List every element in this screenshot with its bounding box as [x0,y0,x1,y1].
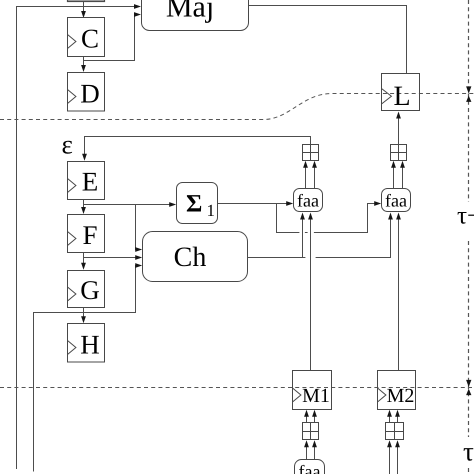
wire F out to G and Ch input 2 [83,253,85,265]
wires faa-L outputs to CSA top-left [305,166,307,188]
node A feedback wire to Maj input 1 [17,7,140,470]
wire Sigma1 out to faa-L side and faa-R side [218,203,290,205]
op unit Maj [142,0,249,31]
svg-text:C: C [81,24,99,54]
CSA adder bottom-left [303,423,319,440]
register L [382,74,420,111]
wire M1 out up to faa-L bottom 2 [310,219,312,371]
register G [68,271,105,308]
wire Ch out to faa-L bottom 1 and faa-R bottom 1 [248,257,306,259]
svg-text:M1: M1 [302,385,330,407]
svg-text:Σ: Σ [186,190,202,217]
svg-text:D: D [80,78,100,108]
op unit Ch [143,232,248,282]
register D [68,73,105,112]
vertical dashed timeline [468,0,470,202]
wire E out to F, Sigma1 and Ch input 1 [83,200,85,209]
svg-text:ε: ε [62,130,73,160]
wires faa-R outputs to CSA top-right [393,166,395,188]
wires into CSA bottom-right from below [389,446,391,474]
svg-text:Ch: Ch [174,242,207,273]
wires CSA bottom-right to M2 [389,415,391,423]
wires CSA bottom-left to M1 [306,415,308,423]
register E [68,162,105,200]
wire Maj out to L top [249,6,407,74]
op unit Sigma1 [177,183,218,224]
register B (clipped gray sliver) [68,0,105,2]
svg-text:faa: faa [385,190,407,210]
svg-text:E: E [82,167,99,197]
dashed stage boundary 1 [0,94,474,120]
adder faa left [294,189,323,212]
wire adder out to L bottom [398,117,400,144]
adder faa right [382,189,411,212]
CSA adder bottom-right [386,423,404,440]
register F [68,215,105,253]
register H [68,324,105,363]
svg-text:τ: τ [463,437,474,467]
wire B to C [83,2,85,13]
svg-text:G: G [80,275,100,305]
svg-text:faa: faa [297,190,319,210]
register C [68,18,105,57]
tau interval marker at boundary 1 [466,86,471,93]
svg-text:F: F [82,220,97,250]
svg-text:Maj: Maj [166,0,214,23]
register M1 [293,371,332,410]
svg-text:M2: M2 [387,385,415,407]
svg-text:1: 1 [207,201,216,220]
register M2 [378,371,416,410]
svg-text:τ−: τ− [457,203,474,230]
wires bottom faa outputs to CSA bottom-left [306,446,308,460]
wire C out to D and Maj input 2 [83,57,85,67]
CSA adder top-left [303,145,319,161]
svg-text:L: L [393,81,410,112]
adder faa bottom (clipped) [295,460,325,474]
svg-text:H: H [80,329,100,359]
wire G out to H, Ch input 3 and left bus [83,308,85,318]
svg-text:faa: faa [299,462,321,474]
CSA adder top-right [391,145,407,161]
wire M2 out up to faa-R bottom 2 [398,219,400,371]
tau interval marker at boundary 2 [466,380,471,387]
dashed stage boundary 2 [0,387,474,389]
wire E input feedback from CSA [85,137,311,156]
